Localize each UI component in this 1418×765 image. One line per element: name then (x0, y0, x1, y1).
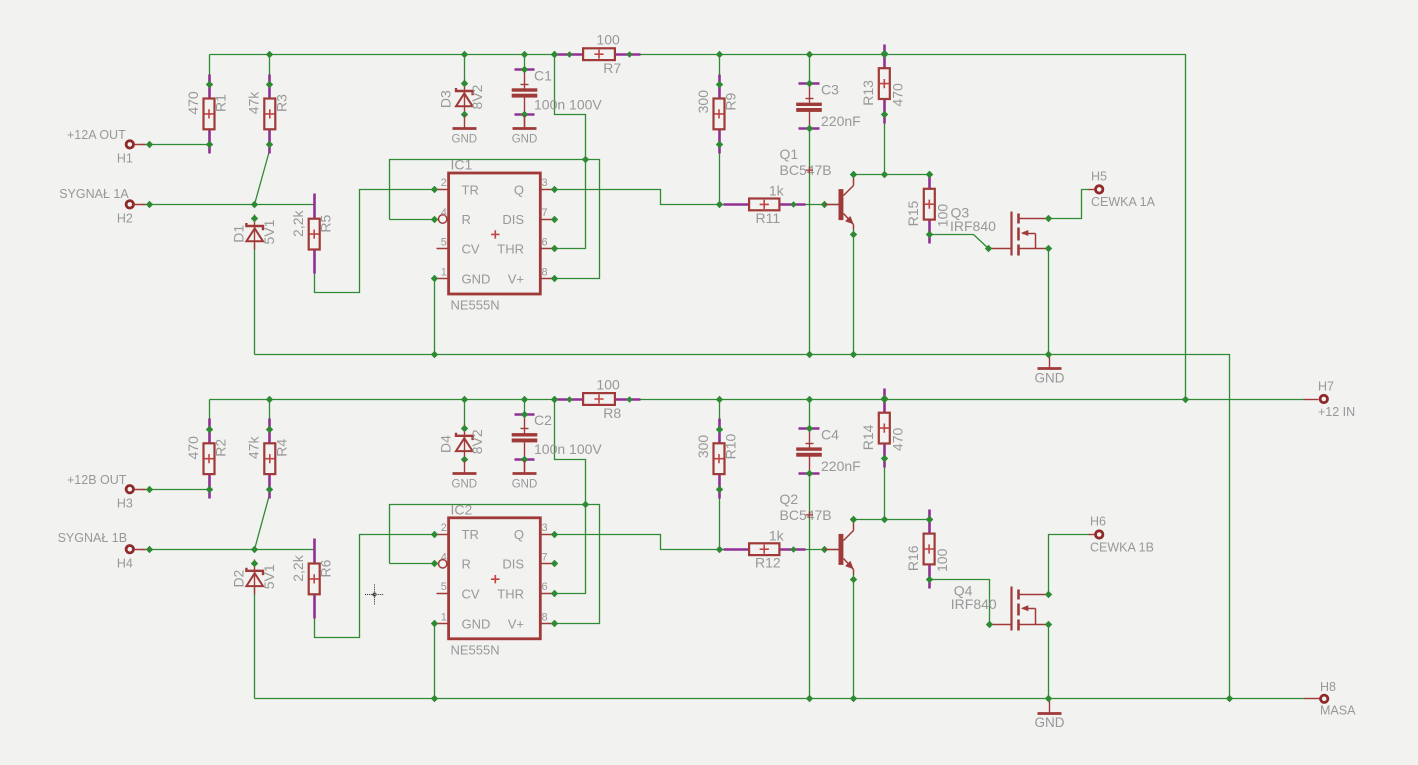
svg-text:BC547B: BC547B (780, 162, 832, 178)
wire emitter down (853, 574, 855, 699)
svg-text:R8: R8 (603, 405, 621, 421)
svg-text:GND: GND (452, 478, 478, 490)
wire R13 down (884, 115, 886, 175)
svg-text:R14: R14 (860, 424, 876, 450)
svg-text:NE555N: NE555N (451, 298, 500, 313)
wire SYGNAL row (142, 549, 315, 551)
ground symbol (512, 116, 538, 146)
wire C3 drop (809, 400, 811, 429)
svg-text:R1: R1 (213, 94, 229, 112)
svg-text:H7: H7 (1318, 379, 1334, 393)
svg-text:Q: Q (514, 182, 524, 197)
zener diode D3 (8V2) (437, 80, 485, 119)
svg-text:5: 5 (441, 581, 447, 593)
resistor R5 (2,2k) (290, 194, 334, 274)
wire C3 down (809, 130, 811, 355)
svg-text:GND: GND (512, 134, 538, 146)
ground symbol (452, 116, 478, 146)
svg-text:5V1: 5V1 (261, 219, 277, 244)
ground symbol (1035, 701, 1065, 731)
wire D1 anode down (254, 244, 256, 355)
pad H1 (67, 128, 153, 166)
wire R drop 3 (269, 400, 271, 419)
svg-text:3: 3 (542, 177, 548, 189)
wire SYGNAL row (142, 204, 315, 206)
svg-text:R: R (462, 212, 471, 227)
svg-text:+12B OUT: +12B OUT (67, 473, 127, 487)
wire pin4 stub (390, 219, 439, 221)
svg-text:1: 1 (441, 267, 447, 279)
wire R drop 1 (209, 55, 211, 85)
ground symbol (452, 461, 478, 491)
wire H8 link (1230, 698, 1306, 700)
wire top GND rail (255, 355, 1230, 699)
wire jog to IC R/V+ (555, 55, 586, 160)
svg-text:Q2: Q2 (780, 491, 799, 507)
wire collector row (854, 174, 930, 176)
wire Q out (555, 535, 839, 550)
svg-text:1k: 1k (769, 527, 785, 543)
resistor R11 (1k) (724, 183, 806, 226)
svg-text:R: R (462, 557, 471, 572)
transistor Q2 (BC547B NPN) (780, 491, 858, 583)
svg-text:R5: R5 (318, 215, 334, 233)
op-amp timer IC IC2 (NE555N) (437, 501, 554, 657)
resistor R7 (100) (551, 32, 641, 76)
svg-text:THR: THR (497, 242, 524, 257)
svg-text:GND: GND (512, 478, 538, 490)
pad H8 (1305, 680, 1357, 718)
wire bottom GND rail (255, 698, 1230, 700)
resistor R6 (2,2k) (290, 539, 334, 619)
ground symbol (1035, 356, 1065, 386)
svg-text:4: 4 (441, 207, 447, 219)
wire D drop (464, 55, 466, 84)
gate dot Q4 (986, 621, 993, 628)
wire R16 to gate (930, 580, 990, 625)
wire R9 drop (719, 400, 721, 430)
resistor R12 (1k) (724, 527, 806, 570)
svg-text:Q1: Q1 (780, 146, 799, 162)
wire Q3 source down (1048, 249, 1050, 355)
svg-text:H8: H8 (1320, 680, 1336, 694)
svg-text:R15: R15 (905, 200, 921, 226)
resistor R15 (100) (905, 171, 950, 244)
svg-text:SYGNAŁ 1B: SYGNAŁ 1B (58, 531, 127, 545)
pad H7 (1304, 379, 1356, 419)
svg-text:2: 2 (441, 177, 447, 189)
svg-text:6: 6 (542, 581, 548, 593)
svg-text:DIS: DIS (502, 557, 524, 572)
wire C drop (524, 55, 526, 70)
svg-text:V+: V+ (508, 272, 524, 287)
resistor R8 (100) (551, 376, 641, 420)
wire C3 down (809, 475, 811, 699)
svg-text:D2: D2 (231, 569, 247, 587)
svg-text:SYGNAŁ 1A: SYGNAŁ 1A (59, 187, 129, 201)
svg-text:7: 7 (542, 207, 548, 219)
svg-text:100: 100 (934, 548, 950, 572)
wire D1 anode down (254, 588, 256, 699)
svg-text:+12 IN: +12 IN (1318, 405, 1355, 419)
svg-text:CEWKA 1B: CEWKA 1B (1090, 540, 1154, 554)
svg-text:47k: 47k (246, 436, 262, 460)
svg-text:300: 300 (695, 435, 711, 459)
svg-text:R12: R12 (755, 555, 781, 571)
capacitor C2 (100n 100V) (512, 411, 603, 474)
wire R/V+ bus (390, 160, 600, 279)
svg-text:4: 4 (441, 552, 447, 564)
origin cross near Q (806, 167, 813, 174)
wire R3 diagonal (255, 495, 270, 550)
resistor R3 (47k) (246, 75, 290, 154)
svg-text:C1: C1 (534, 67, 552, 83)
svg-text:Q: Q (514, 527, 524, 542)
wire THR link (555, 160, 586, 249)
svg-text:8V2: 8V2 (469, 84, 485, 109)
svg-text:220nF: 220nF (821, 458, 861, 474)
wire R15 to gate (930, 235, 989, 249)
capacitor C1 (100n 100V) (512, 66, 603, 129)
zener diode D1 (5V1) (231, 215, 277, 250)
svg-text:GND: GND (1035, 715, 1065, 730)
pad H5 (1089, 170, 1156, 210)
svg-text:GND: GND (1035, 370, 1065, 385)
svg-text:470: 470 (185, 91, 201, 115)
wire +12 IN rail (210, 399, 1305, 401)
pad H4 (58, 531, 154, 570)
resistor R13 (470) (860, 45, 905, 124)
svg-text:R3: R3 (273, 94, 289, 112)
svg-text:CV: CV (462, 586, 480, 601)
svg-text:470: 470 (185, 436, 201, 460)
zener diode D2 (5V1) (231, 560, 277, 595)
extra dot R11 right 2 (821, 546, 828, 553)
wire pin1 GND down (434, 279, 436, 355)
svg-text:8V2: 8V2 (469, 429, 485, 454)
transistor Q1 (BC547B NPN) (780, 146, 858, 238)
transistor Q3 (IRF840 MOSFET) (950, 205, 1052, 256)
resistor R1 (470) (185, 75, 229, 154)
wire THR link (555, 505, 586, 594)
wire jog to IC R/V+ (555, 400, 586, 505)
svg-text:100: 100 (934, 204, 950, 228)
wire drain to H6 (1049, 535, 1090, 595)
svg-text:H4: H4 (117, 556, 133, 570)
resistor R4 (47k) (246, 419, 290, 499)
svg-text:R7: R7 (603, 60, 621, 76)
svg-text:DIS: DIS (502, 212, 524, 227)
junction dots top rail (266, 51, 888, 58)
svg-text:2,2k: 2,2k (290, 554, 306, 581)
svg-text:470: 470 (889, 83, 905, 107)
wire R5 to TR (315, 190, 435, 293)
wire pin4 stub (390, 563, 439, 565)
svg-text:D3: D3 (437, 90, 453, 108)
zener diode D4 (8V2) (437, 425, 485, 464)
resistor R14 (470) (860, 389, 905, 468)
svg-text:GND: GND (452, 134, 478, 146)
svg-text:H5: H5 (1091, 170, 1107, 184)
capacitor C3 (220nF) (796, 80, 861, 132)
wire R drop 3 (269, 55, 271, 75)
wire D drop (464, 400, 466, 429)
svg-text:47k: 47k (246, 91, 262, 115)
svg-text:D1: D1 (231, 225, 247, 243)
svg-text:5V1: 5V1 (261, 564, 277, 589)
wire H out row (142, 144, 210, 146)
wire collector row (854, 519, 930, 521)
svg-text:H1: H1 (117, 152, 133, 166)
svg-text:100n 100V: 100n 100V (534, 96, 602, 112)
wire Q out (555, 190, 839, 205)
wire emitter down (853, 230, 855, 355)
ground symbol (512, 461, 538, 491)
svg-text:6: 6 (542, 236, 548, 248)
wire Q4 source down (1048, 625, 1050, 699)
gate dot Q3 (985, 245, 992, 252)
svg-text:3: 3 (542, 522, 548, 534)
wire R5 to TR (315, 535, 435, 638)
svg-text:TR: TR (462, 182, 479, 197)
resistor R2 (470) (185, 419, 229, 499)
svg-text:2,2k: 2,2k (290, 209, 306, 236)
svg-text:H2: H2 (117, 212, 133, 226)
svg-text:R4: R4 (273, 439, 289, 457)
svg-text:8: 8 (542, 611, 548, 623)
wire R drop 1 (209, 400, 211, 430)
svg-text:IRF840: IRF840 (951, 596, 997, 612)
svg-text:5: 5 (441, 236, 447, 248)
svg-text:THR: THR (497, 586, 524, 601)
svg-text:8: 8 (542, 267, 548, 279)
svg-text:100: 100 (596, 32, 620, 48)
svg-text:R2: R2 (213, 439, 229, 457)
svg-text:100n 100V: 100n 100V (534, 441, 602, 457)
pad H6 (1089, 515, 1154, 555)
svg-text:7: 7 (542, 552, 548, 564)
svg-text:R6: R6 (318, 559, 334, 577)
junction dots top circuit (251, 156, 1052, 358)
junction dots bottom rail (266, 396, 1189, 403)
svg-text:TR: TR (462, 527, 479, 542)
svg-text:300: 300 (695, 90, 711, 114)
svg-text:R13: R13 (860, 80, 876, 106)
svg-text:IC2: IC2 (451, 501, 473, 517)
svg-text:C2: C2 (534, 412, 552, 428)
pad H3 (67, 473, 153, 511)
resistor R10 (300) (695, 419, 739, 499)
svg-text:BC547B: BC547B (780, 507, 832, 523)
wire C3 drop (809, 55, 811, 84)
wire R9 mid (719, 145, 721, 205)
svg-text:H6: H6 (1090, 515, 1106, 529)
svg-text:220nF: 220nF (821, 113, 861, 129)
svg-text:GND: GND (462, 272, 491, 287)
svg-text:CV: CV (462, 242, 480, 257)
wire +12 top rail (210, 55, 1186, 400)
capacitor C4 (220nF) (796, 425, 861, 477)
cursor crosshair (365, 585, 384, 605)
svg-text:C4: C4 (821, 427, 839, 443)
svg-text:MASA: MASA (1320, 704, 1356, 718)
pad H2 (59, 187, 153, 226)
svg-text:C3: C3 (821, 82, 839, 98)
junction dots bottom circuit (251, 501, 1233, 702)
svg-text:R16: R16 (905, 545, 921, 571)
resistor R16 (100) (905, 510, 950, 589)
svg-text:IC1: IC1 (451, 157, 473, 173)
svg-text:100: 100 (596, 376, 620, 392)
svg-text:1k: 1k (769, 183, 785, 199)
svg-text:NE555N: NE555N (451, 642, 500, 657)
svg-text:R9: R9 (723, 93, 739, 111)
svg-text:V+: V+ (508, 616, 524, 631)
wire pin1 GND down (434, 624, 436, 699)
op-amp timer IC IC1 (NE555N) (437, 157, 554, 313)
wire C drop (524, 400, 526, 415)
svg-text:H3: H3 (117, 496, 133, 510)
svg-text:470: 470 (889, 428, 905, 452)
svg-text:R10: R10 (723, 433, 739, 459)
wire R9 mid (719, 490, 721, 550)
transistor Q4 (IRF840 MOSFET) (951, 583, 1052, 631)
origin cross near Q (806, 511, 813, 518)
wire R13 down (884, 460, 886, 520)
wire R9 drop (719, 55, 721, 85)
svg-text:GND: GND (462, 616, 491, 631)
svg-text:CEWKA 1A: CEWKA 1A (1091, 195, 1156, 209)
wire drain to H5 (1049, 190, 1090, 219)
svg-text:D4: D4 (437, 435, 453, 453)
svg-text:+12A OUT: +12A OUT (67, 128, 126, 142)
svg-text:R11: R11 (755, 210, 780, 226)
svg-text:2: 2 (441, 522, 447, 534)
svg-text:1: 1 (441, 611, 447, 623)
extra dot R11 right 2 (821, 201, 828, 208)
svg-text:IRF840: IRF840 (950, 218, 996, 234)
resistor R9 (300) (695, 75, 739, 154)
wire H out row (142, 489, 210, 491)
wire R/V+ bus (390, 505, 600, 624)
wire R3 diagonal (255, 151, 270, 205)
